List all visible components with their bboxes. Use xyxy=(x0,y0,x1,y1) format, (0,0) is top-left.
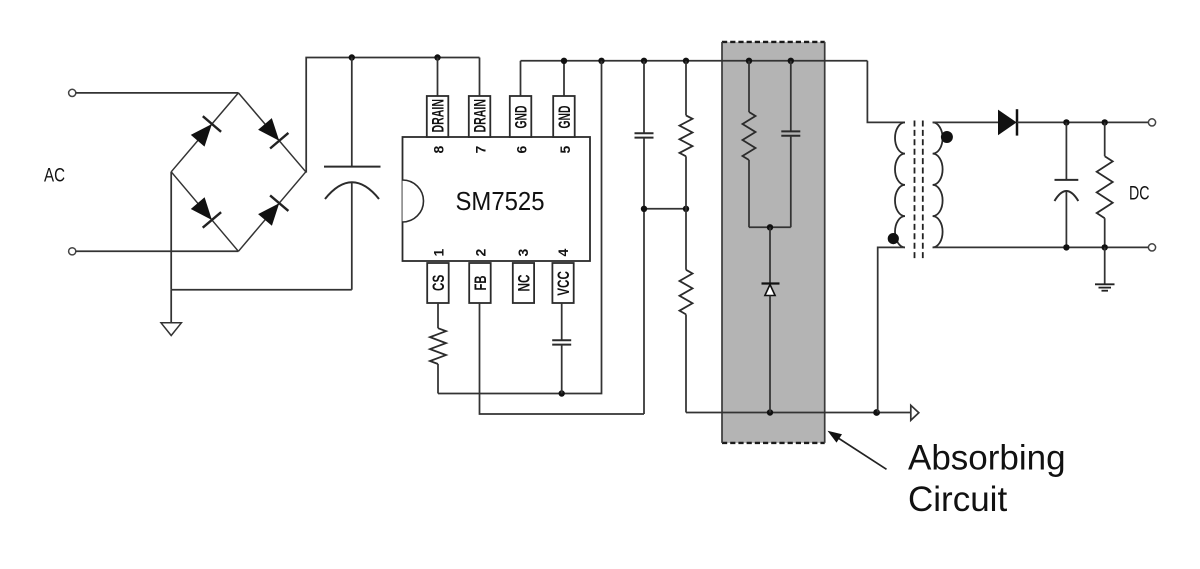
ground GND1 xyxy=(161,290,181,336)
pin 8 DRAIN xyxy=(427,58,449,154)
svg-text:DRAIN: DRAIN xyxy=(472,99,490,133)
svg-text:4: 4 xyxy=(555,249,571,257)
node dot C2 bottom xyxy=(559,390,565,396)
svg-text:DRAIN: DRAIN xyxy=(430,99,448,133)
op IC U1 SM7525 body xyxy=(403,137,591,261)
pin 2 FB xyxy=(469,249,491,304)
wire divider tap xyxy=(644,208,686,210)
wire bridge+ up xyxy=(306,58,480,172)
transformer primary phase dot xyxy=(888,233,899,244)
node dot snubber xyxy=(767,224,773,230)
node dot tap right xyxy=(683,206,689,212)
svg-text:GND: GND xyxy=(513,105,531,128)
node dot pin5 xyxy=(561,58,567,64)
node dot C4 top xyxy=(788,58,794,64)
diode D6 output xyxy=(998,109,1017,135)
svg-text:NC: NC xyxy=(515,274,533,291)
svg-text:2: 2 xyxy=(473,249,489,257)
node dot R2 top xyxy=(683,58,689,64)
capacitor C5 output xyxy=(1055,122,1079,247)
wire top right bus xyxy=(521,60,868,62)
node dot R4 top xyxy=(746,58,752,64)
ground GND2 output xyxy=(1095,247,1115,290)
transformer T1 primary winding xyxy=(895,122,905,247)
bridge diode D2 xyxy=(238,93,305,172)
wire bridge- down xyxy=(170,172,172,290)
wire output top xyxy=(1017,121,1149,123)
node dot C5 bottom xyxy=(1063,244,1069,250)
transformer secondary phase dot xyxy=(941,131,953,143)
resistor R1 CS xyxy=(430,303,446,394)
wire primary ground xyxy=(171,289,352,291)
svg-text:CS: CS xyxy=(430,275,448,291)
wire secondary top xyxy=(933,121,998,123)
wire snubber to diode xyxy=(769,227,771,283)
wire C3 to FB xyxy=(643,209,645,414)
node dot C3 top xyxy=(641,58,647,64)
capacitor C2 VCC xyxy=(552,303,571,394)
svg-text:DC: DC xyxy=(1129,184,1150,205)
capacitor C3 xyxy=(635,61,654,209)
node dot R5 top xyxy=(1102,119,1108,125)
wire bottom bus to arrow xyxy=(686,412,911,414)
node dot gnd drop xyxy=(598,58,604,64)
svg-text:AC: AC xyxy=(44,165,65,186)
pin 7 DRAIN xyxy=(469,58,491,154)
pin 1 CS xyxy=(427,249,449,304)
resistor R2 xyxy=(680,61,693,209)
node dot D5 bottom xyxy=(767,409,773,415)
resistor R5 load xyxy=(1097,122,1113,247)
pin 3 NC xyxy=(513,249,534,304)
transformer T1 primary exit xyxy=(878,247,905,412)
svg-text:6: 6 xyxy=(514,146,530,154)
node dot R5 bottom xyxy=(1102,244,1108,250)
svg-text:GND: GND xyxy=(556,105,574,128)
node dot primary return xyxy=(873,409,880,416)
node dot C1 top xyxy=(349,54,355,60)
node dot C5 top xyxy=(1063,119,1069,125)
arrow terminal xyxy=(911,405,919,420)
wire output bottom xyxy=(933,246,1149,248)
bridge diode D3 xyxy=(171,172,238,252)
node dot tap left xyxy=(641,206,647,212)
bridge diode D4 xyxy=(238,172,305,252)
absorbing circuit shaded box xyxy=(722,42,825,443)
wire gnd drop xyxy=(438,61,602,394)
pin 4 VCC xyxy=(552,249,573,304)
arrow to absorbing box xyxy=(828,431,887,470)
terminal DC top xyxy=(1148,119,1155,126)
transformer core xyxy=(915,121,923,262)
svg-text:8: 8 xyxy=(431,146,447,154)
svg-text:VCC: VCC xyxy=(555,271,573,296)
wire diode to bus xyxy=(769,296,771,413)
capacitor C4 snubber xyxy=(781,61,800,228)
terminal DC bottom xyxy=(1148,244,1155,251)
transformer T1 primary lead xyxy=(867,61,905,123)
svg-text:Absorbing: Absorbing xyxy=(908,438,1066,477)
wire AC bottom xyxy=(76,250,239,252)
resistor R4 snubber xyxy=(743,61,756,228)
wire AC top xyxy=(76,92,239,94)
svg-text:FB: FB xyxy=(472,275,490,290)
svg-text:7: 7 xyxy=(473,146,489,154)
diode D5 snubber xyxy=(762,284,780,296)
terminal AC bottom xyxy=(69,248,76,255)
wire FB feedback xyxy=(480,303,645,414)
node dot pin8 top xyxy=(434,54,440,60)
capacitor C1 bulk xyxy=(324,58,381,290)
svg-text:Circuit: Circuit xyxy=(908,480,1007,519)
bridge diode D1 xyxy=(171,93,238,172)
svg-text:5: 5 xyxy=(557,146,573,154)
wire snubber junction xyxy=(749,226,791,228)
svg-text:3: 3 xyxy=(515,249,531,257)
svg-text:1: 1 xyxy=(431,249,447,257)
svg-text:SM7525: SM7525 xyxy=(456,186,545,216)
transformer T1 secondary winding xyxy=(933,122,943,247)
pin 6 GND xyxy=(510,61,532,154)
terminal AC top xyxy=(69,89,76,96)
resistor R3 xyxy=(680,209,693,413)
pin 5 GND xyxy=(553,61,575,154)
